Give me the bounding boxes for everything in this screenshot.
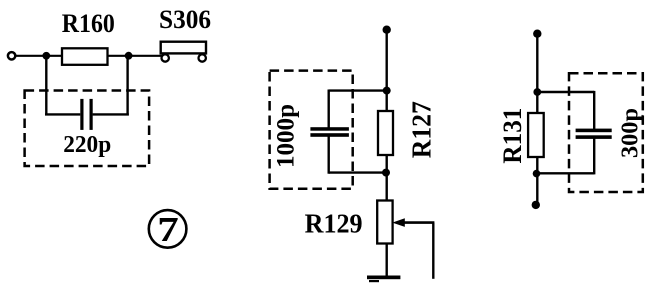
- svg-text:S306: S306: [159, 5, 211, 34]
- svg-text:R160: R160: [62, 9, 115, 38]
- svg-text:R131: R131: [498, 108, 527, 164]
- svg-text:300p: 300p: [618, 108, 644, 158]
- svg-text:7: 7: [157, 210, 179, 249]
- svg-text:220p: 220p: [63, 132, 111, 158]
- svg-text:R127: R127: [406, 101, 436, 158]
- svg-text:1000p: 1000p: [273, 104, 300, 168]
- svg-text:R129: R129: [305, 209, 363, 239]
